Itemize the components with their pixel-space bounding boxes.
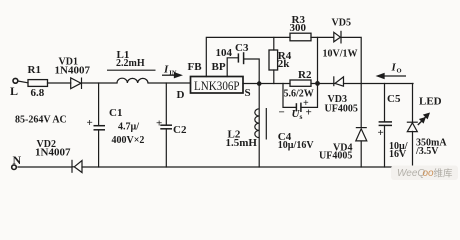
svg-text:+: + [156,118,162,130]
svg-text:C3: C3 [235,42,249,54]
svg-text:O: O [397,68,402,75]
svg-text:L: L [10,84,18,98]
svg-text:85-264V AC: 85-264V AC [15,115,67,126]
svg-text:LNK306P: LNK306P [194,79,240,93]
svg-text:+: + [378,127,384,139]
svg-text:2.2mH: 2.2mH [116,58,145,69]
svg-text:WeeQ: WeeQ [397,168,425,179]
svg-text:VD5: VD5 [332,18,351,29]
svg-text:R1: R1 [28,64,41,76]
svg-text:UF4005: UF4005 [325,104,358,115]
svg-text:R2: R2 [298,69,312,81]
svg-text:4.7µ/: 4.7µ/ [118,122,139,133]
svg-text:I: I [163,64,169,76]
svg-text:5.6/2W: 5.6/2W [284,89,314,100]
svg-text:104: 104 [216,47,233,59]
svg-text:+: + [87,117,93,129]
svg-text:LED: LED [419,96,442,108]
svg-text:10V/1W: 10V/1W [323,49,358,60]
svg-text:6.8: 6.8 [31,87,45,99]
svg-text:D: D [177,89,185,101]
svg-text:C1: C1 [109,107,122,119]
svg-text:UF4005: UF4005 [319,151,352,162]
svg-text:维库: 维库 [434,168,454,180]
svg-text:16V: 16V [389,149,407,160]
svg-text:C5: C5 [387,93,401,105]
svg-text:N: N [13,153,22,167]
svg-text:oo: oo [423,168,435,179]
svg-text:IN: IN [169,70,177,77]
svg-text:2k: 2k [278,58,291,70]
svg-text:10µ/16V: 10µ/16V [278,140,315,151]
svg-text:+: + [303,98,309,109]
svg-text:C2: C2 [173,124,187,136]
svg-text:S: S [245,87,251,99]
svg-text:400V×2: 400V×2 [112,135,145,146]
svg-text:1.5mH: 1.5mH [226,137,258,149]
svg-text:1N4007: 1N4007 [35,147,71,159]
svg-text:−: − [279,107,285,119]
svg-text:FB: FB [188,61,203,73]
svg-text:s: s [300,112,303,121]
svg-text:BP: BP [212,61,226,73]
svg-text:/3.5V: /3.5V [415,146,439,157]
svg-text:1N4007: 1N4007 [55,65,91,77]
svg-text:300: 300 [290,22,307,34]
